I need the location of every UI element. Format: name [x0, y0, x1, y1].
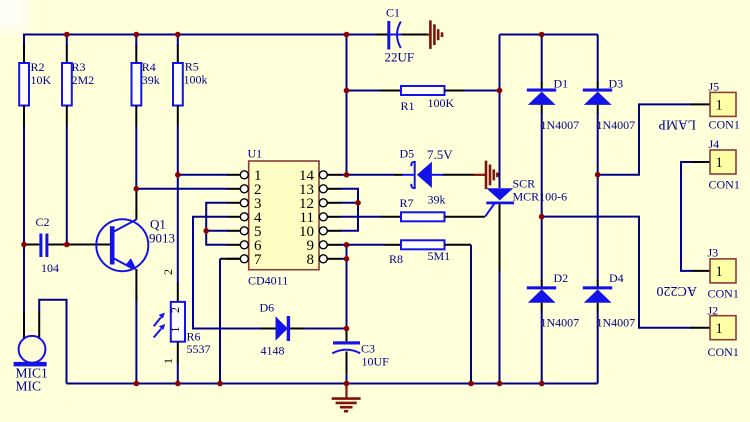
svg-text:CON1: CON1 [709, 118, 740, 132]
svg-text:7.5V: 7.5V [427, 147, 453, 162]
wire pin7 down to ground rail [220, 258, 241, 260]
wire pin9 to R8 row [340, 244, 386, 246]
svg-text:D4: D4 [609, 271, 624, 285]
U1 pin numbers right [299, 168, 315, 268]
svg-text:100k: 100k [184, 73, 208, 87]
wire R7 to SCR gate [445, 216, 486, 218]
wire R5 top [177, 35, 179, 47]
svg-text:J5: J5 [709, 80, 720, 94]
wire D1/D2 node to J2 [542, 217, 692, 328]
wire MIC second terminal to ground rail [39, 300, 66, 384]
wire J4 pin black stub [692, 161, 710, 163]
svg-text:R7: R7 [400, 196, 414, 210]
diode D6 4148 [260, 301, 306, 358]
wire D6 to C3 node [304, 328, 347, 330]
svg-text:1: 1 [161, 358, 175, 364]
svg-text:2: 2 [168, 307, 182, 313]
svg-text:10K: 10K [31, 73, 52, 87]
connector J3 [708, 246, 739, 301]
U1 pin 10 [319, 227, 341, 235]
svg-text:D6: D6 [260, 301, 275, 315]
wire J3 pin black stub [692, 270, 710, 272]
svg-text:MCR100-6: MCR100-6 [513, 190, 568, 204]
U1 pin 14 [319, 171, 341, 179]
U1 pin 3 [227, 199, 248, 207]
svg-text:1: 1 [716, 321, 723, 337]
svg-text:J4: J4 [709, 137, 720, 151]
U1 pin 5 [227, 227, 248, 235]
wire top VCC rail [24, 35, 377, 47]
svg-text:AC220: AC220 [657, 283, 697, 298]
svg-text:C2: C2 [36, 215, 50, 229]
svg-text:C1: C1 [386, 6, 400, 20]
wire output column pin9 to C3 [346, 245, 348, 329]
svg-text:CON1: CON1 [708, 345, 739, 359]
microphone MIC1 [14, 245, 48, 394]
svg-text:R3: R3 [72, 60, 86, 74]
photoresistor R6 [154, 269, 211, 384]
wire top right rectified rail [500, 34, 598, 36]
U1 pin 11 [319, 213, 341, 221]
connector J5 [709, 80, 740, 132]
wire top rail black stub to C1 [376, 34, 388, 36]
zener diode D5 7.5V [395, 147, 474, 189]
svg-text:39k: 39k [428, 193, 446, 207]
connector J2 [708, 304, 739, 360]
wire VCC column upper [346, 35, 348, 175]
U1 pin 2 [227, 185, 248, 193]
wire R4 bottom to pin2 node [135, 126, 137, 189]
wire pin4 down to D6 [193, 217, 262, 329]
svg-text:1: 1 [716, 155, 723, 171]
svg-text:5537: 5537 [187, 342, 211, 356]
svg-text:C3: C3 [361, 342, 375, 356]
svg-text:U1: U1 [248, 147, 263, 161]
svg-text:R5: R5 [185, 60, 199, 74]
svg-text:2M2: 2M2 [72, 73, 95, 87]
svg-text:R1: R1 [401, 99, 415, 113]
resistor R7 39k [340, 193, 446, 222]
svg-text:10UF: 10UF [362, 355, 390, 369]
svg-text:22UF: 22UF [385, 50, 415, 65]
svg-text:SCR: SCR [513, 177, 536, 191]
svg-text:LAMP: LAMP [658, 118, 696, 133]
capacitor C1 22UF [385, 6, 429, 65]
ground symbol power right of C1 [427, 20, 442, 49]
capacitor C3 10UF [332, 341, 389, 374]
U1 pin 8 [319, 255, 341, 263]
svg-text:1: 1 [716, 264, 723, 280]
svg-text:D3: D3 [609, 77, 624, 91]
diode D3 1N4007 [583, 35, 635, 133]
U1 pin 7 [227, 255, 248, 263]
wire D3 to D4 junction [597, 112, 599, 281]
diode D2 1N4007 [527, 217, 579, 330]
wire J5 pin black stub [691, 103, 710, 105]
wire pin13 to pin10 bracket [340, 189, 358, 231]
wire pin5 to bracket [206, 230, 228, 232]
svg-text:CON1: CON1 [709, 178, 740, 192]
resistor R3 [62, 44, 94, 126]
svg-text:D2: D2 [554, 271, 569, 285]
wire D1 to D2 junction [541, 112, 543, 217]
wire R3 top [66, 35, 68, 47]
svg-text:D1: D1 [554, 77, 569, 91]
wire pin2 to R4 column [136, 188, 228, 190]
svg-text:39k: 39k [142, 73, 160, 87]
svg-text:1N4007: 1N4007 [597, 316, 636, 330]
wire D4 to ground rail corner [597, 310, 599, 384]
wire pin14 to VCC column [340, 174, 347, 176]
wire R8 right down to ground rail [470, 245, 472, 384]
wire J4 to J3 [681, 162, 693, 271]
svg-text:R8: R8 [389, 252, 403, 266]
svg-text:100K: 100K [428, 96, 455, 110]
wire pin8 to column [340, 258, 347, 260]
wire pin12 to bracket [340, 202, 358, 204]
resistor R8 5M1 [385, 240, 471, 266]
svg-text:J3: J3 [708, 246, 719, 260]
wire pin1 to R5 column [178, 174, 228, 176]
wire D2 to ground rail [541, 310, 543, 384]
diode D1 1N4007 [527, 35, 579, 133]
svg-text:Q1: Q1 [150, 217, 166, 232]
svg-text:5M1: 5M1 [428, 249, 451, 263]
svg-text:J2: J2 [708, 304, 719, 318]
wire VCC row to D5 [347, 174, 396, 176]
ground symbol power at SCR anode [473, 161, 497, 190]
U1 pin 6 [227, 241, 248, 249]
svg-text:MIC: MIC [16, 379, 42, 394]
svg-text:9013: 9013 [149, 231, 175, 246]
resistor R5 [173, 44, 208, 126]
svg-text:1N4007: 1N4007 [597, 118, 636, 132]
wire black stub above C3 [346, 329, 348, 341]
U1 pin 9 [319, 241, 341, 249]
svg-text:1: 1 [716, 98, 723, 114]
svg-text:1N4007: 1N4007 [541, 316, 580, 330]
capacitor C2 [24, 215, 59, 275]
svg-text:4148: 4148 [261, 344, 285, 358]
svg-text:R4: R4 [142, 60, 156, 74]
wire R2 to C2/MIC column [23, 126, 25, 245]
wire C2 to Q1 base [48, 244, 110, 246]
U1 pin 12 [319, 199, 341, 207]
wire D3/D4 node to J5 [598, 104, 692, 174]
wire Q1 emitter to ground rail [135, 300, 137, 384]
op-amp/IC U1 CD4011 body [248, 147, 320, 288]
wire R3 bottom to base node [66, 126, 68, 245]
wire C3 bottom to ground rail [346, 373, 348, 384]
svg-text:104: 104 [41, 261, 59, 275]
svg-text:CON1: CON1 [708, 287, 739, 301]
U1 pin 4 [227, 213, 248, 221]
svg-text:7: 7 [254, 252, 262, 268]
wire bottom ground rail [67, 383, 598, 385]
svg-text:8: 8 [307, 252, 315, 268]
ground symbol earth bottom [332, 385, 361, 411]
thyristor SCR MCR100-6 [485, 35, 567, 384]
svg-text:CD4011: CD4011 [248, 274, 288, 288]
resistor R1 100K [347, 86, 500, 113]
U1 pin 1 [227, 171, 248, 179]
svg-text:1N4007: 1N4007 [541, 118, 580, 132]
resistor R4 [132, 44, 160, 126]
U1 pin numbers left [254, 168, 262, 268]
wire pin3-pin6 bracket [206, 203, 228, 245]
resistor R2 [19, 44, 51, 126]
wire J2 pin black stub [691, 327, 710, 329]
svg-text:2: 2 [161, 269, 175, 275]
svg-text:D5: D5 [400, 147, 415, 161]
U1 pin 13 [319, 185, 341, 193]
connector J4 [709, 137, 740, 192]
wire R4 top [135, 35, 137, 47]
wire R5 bottom to pin1 node and R6 [177, 126, 179, 284]
transistor Q1 [96, 190, 175, 303]
diode D4 1N4007 [583, 271, 635, 330]
svg-text:R2: R2 [31, 60, 45, 74]
svg-text:1: 1 [168, 327, 182, 333]
